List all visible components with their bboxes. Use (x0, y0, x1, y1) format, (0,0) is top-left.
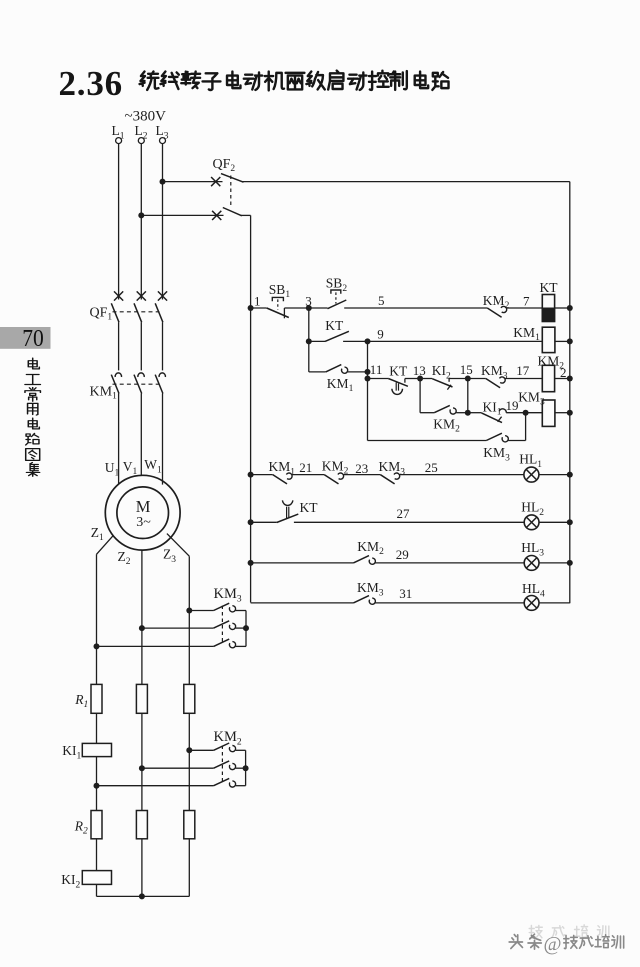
svg-text:13: 13 (413, 363, 426, 378)
svg-text:70: 70 (22, 324, 44, 352)
svg-text:1: 1 (254, 294, 261, 309)
svg-text:17: 17 (516, 363, 530, 378)
svg-text:M: M (136, 497, 151, 516)
svg-text:23: 23 (355, 461, 368, 476)
svg-text:KT: KT (300, 500, 319, 515)
svg-text:27: 27 (397, 506, 411, 521)
svg-text:3~: 3~ (136, 515, 151, 530)
svg-text:KT: KT (389, 363, 408, 378)
svg-text:5: 5 (378, 293, 385, 308)
svg-text:~380V: ~380V (125, 109, 167, 125)
svg-text:3: 3 (305, 294, 312, 309)
svg-text:KT: KT (325, 318, 344, 333)
svg-text:31: 31 (399, 586, 412, 601)
svg-text:15: 15 (460, 362, 473, 377)
svg-text:21: 21 (299, 460, 312, 475)
svg-text:9: 9 (377, 327, 384, 342)
svg-text:19: 19 (506, 398, 519, 413)
svg-text:11: 11 (370, 362, 383, 377)
svg-text:25: 25 (425, 460, 438, 475)
svg-text:@: @ (544, 934, 562, 955)
svg-text:29: 29 (396, 547, 409, 562)
svg-text:7: 7 (523, 294, 530, 309)
svg-text:2.36: 2.36 (59, 64, 123, 103)
svg-text:2: 2 (560, 365, 567, 380)
svg-text:KT: KT (540, 280, 559, 295)
